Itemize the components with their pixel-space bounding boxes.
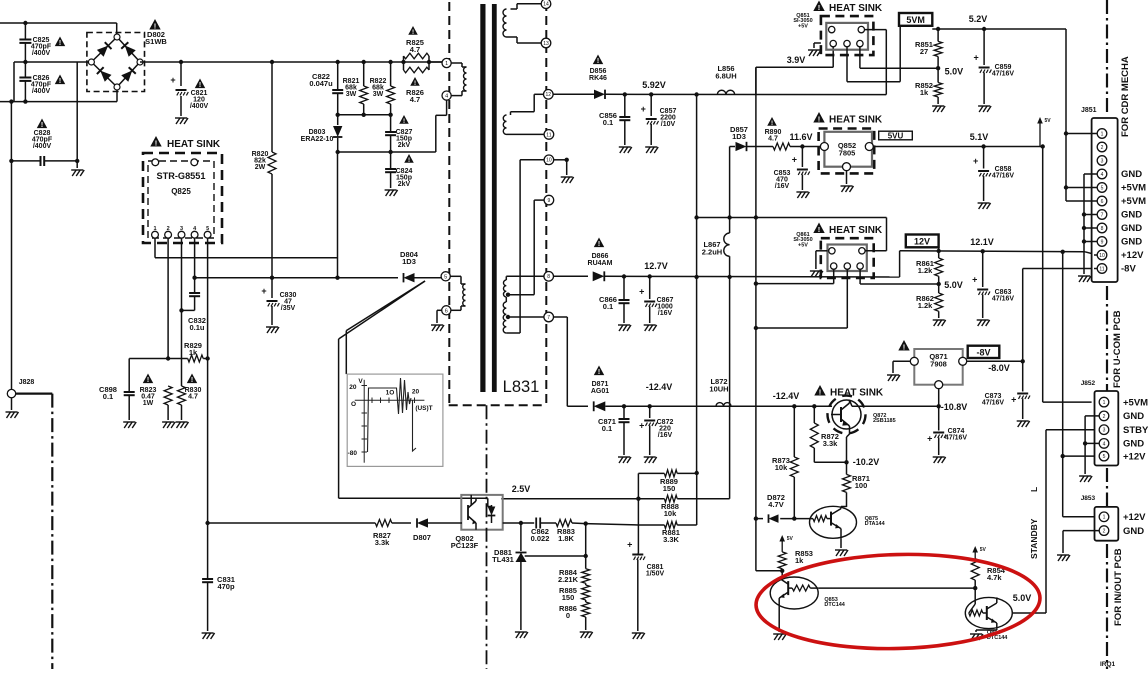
resistor R821 bbox=[343, 62, 368, 115]
svg-text:11: 11 bbox=[1099, 266, 1104, 272]
svg-text:!: ! bbox=[414, 80, 416, 87]
svg-text:2.21K: 2.21K bbox=[558, 575, 579, 584]
svg-text:12: 12 bbox=[546, 92, 552, 98]
svg-text:1: 1 bbox=[1103, 400, 1106, 406]
pin 14 bbox=[541, 0, 551, 9]
svg-text:7805: 7805 bbox=[839, 149, 856, 158]
node C872 bbox=[648, 404, 652, 408]
svg-text:GND: GND bbox=[1121, 169, 1142, 180]
label Q851 bbox=[793, 13, 812, 29]
svg-text:+5VM: +5VM bbox=[1123, 397, 1148, 408]
svg-text:RK46: RK46 bbox=[589, 75, 607, 82]
capacitor C872 bbox=[639, 406, 673, 463]
resistor R884 bbox=[558, 568, 590, 584]
svg-text:/400V: /400V bbox=[32, 50, 51, 57]
resistor R889 bbox=[638, 470, 696, 493]
wire STR pin1 link bbox=[155, 257, 338, 259]
svg-text:+12V: +12V bbox=[1123, 451, 1146, 462]
svg-text:-8.0V: -8.0V bbox=[988, 363, 1010, 373]
svg-text:1: 1 bbox=[445, 61, 448, 67]
svg-text:4.7k: 4.7k bbox=[987, 573, 1002, 582]
label Q872 bbox=[873, 413, 896, 424]
wire bottom fb line bbox=[205, 521, 375, 525]
wire Q854 emitter bbox=[970, 629, 997, 640]
label STANDBY bbox=[1029, 487, 1039, 559]
svg-text:STBY: STBY bbox=[1123, 425, 1148, 436]
transistor Q854 bbox=[965, 597, 1012, 628]
svg-text:AG01: AG01 bbox=[591, 388, 609, 395]
svg-text:!: ! bbox=[147, 377, 149, 384]
wire pin7 drop bbox=[554, 317, 589, 406]
svg-text:+5VM: +5VM bbox=[1121, 183, 1146, 194]
wire Q861 pin R bbox=[860, 269, 939, 284]
svg-text:!: ! bbox=[199, 82, 201, 89]
svg-text:0.1: 0.1 bbox=[603, 302, 613, 311]
svg-text:-10.2V: -10.2V bbox=[853, 457, 880, 467]
node C853 bbox=[800, 144, 804, 148]
svg-text:ERA22-10: ERA22-10 bbox=[301, 136, 334, 143]
wire feedback diag2 bbox=[346, 281, 425, 374]
wire J851 pin1 feed bbox=[1064, 131, 1097, 135]
svg-text:0.1: 0.1 bbox=[603, 118, 613, 127]
wire -10.8V bbox=[850, 400, 939, 406]
svg-text:1.8K: 1.8K bbox=[558, 534, 574, 543]
wire STR pin2 bbox=[167, 238, 169, 358]
capacitor C828 bbox=[9, 119, 79, 167]
svg-text:!: ! bbox=[818, 3, 821, 12]
svg-text:+: + bbox=[973, 156, 978, 166]
secondary winding S14-13 bbox=[503, 4, 541, 43]
capacitor C853 bbox=[774, 147, 810, 199]
svg-text:5: 5 bbox=[444, 274, 447, 280]
wire -8V to J851 bbox=[1023, 269, 1097, 362]
bus vertical right bbox=[755, 67, 757, 518]
svg-text:!: ! bbox=[59, 78, 61, 85]
wire B+ rail bbox=[140, 61, 442, 63]
svg-text:5V: 5V bbox=[1045, 118, 1052, 124]
svg-text:-12.4V: -12.4V bbox=[773, 391, 800, 401]
svg-text:1.2k: 1.2k bbox=[918, 266, 933, 275]
svg-text:100: 100 bbox=[855, 481, 868, 490]
svg-text:GND: GND bbox=[1123, 526, 1144, 537]
supply arrow 5V c bbox=[972, 546, 986, 559]
svg-text:5VU: 5VU bbox=[888, 132, 904, 141]
svg-text:47/16V: 47/16V bbox=[982, 400, 1005, 407]
wire 11.6V bbox=[790, 146, 820, 148]
border dash-dot left bbox=[51, 394, 53, 669]
secondary winding S8-7 bbox=[503, 276, 544, 333]
svg-text:5V: 5V bbox=[787, 536, 794, 542]
wire 12V feed J852 J853 bbox=[1061, 252, 1097, 517]
connector J853 box bbox=[1081, 495, 1119, 541]
svg-text:FOR CDR MECHA: FOR CDR MECHA bbox=[1120, 56, 1131, 137]
label Q802 bbox=[451, 534, 479, 550]
svg-text:10k: 10k bbox=[775, 463, 788, 472]
capacitor C866 bbox=[599, 277, 631, 332]
svg-text:2: 2 bbox=[1103, 414, 1106, 420]
inductor L872 bbox=[709, 377, 731, 406]
node R821 top bbox=[362, 60, 366, 64]
svg-text:3.3k: 3.3k bbox=[823, 439, 838, 448]
svg-text:20: 20 bbox=[412, 389, 420, 396]
svg-text:4: 4 bbox=[1101, 172, 1104, 178]
svg-text:GND: GND bbox=[1121, 210, 1142, 221]
pin 12 bbox=[544, 90, 554, 100]
heatsink Q872 arc bbox=[828, 396, 866, 434]
resistor R873 bbox=[772, 406, 798, 518]
svg-text:+5V: +5V bbox=[798, 23, 808, 29]
capacitor C874 bbox=[927, 406, 967, 463]
svg-text:47/16V: 47/16V bbox=[992, 173, 1015, 180]
label R825 bbox=[406, 26, 424, 54]
border dash-dot right top bbox=[1106, 0, 1108, 114]
svg-text:GND: GND bbox=[1123, 411, 1144, 422]
label -8.0V bbox=[988, 363, 1010, 373]
wire opto out bbox=[501, 498, 638, 500]
node row1 right bbox=[695, 471, 699, 475]
diode D807 bbox=[413, 518, 462, 542]
svg-text:GND: GND bbox=[1121, 223, 1142, 234]
svg-text:D807: D807 bbox=[413, 533, 431, 542]
svg-text:12.1V: 12.1V bbox=[970, 237, 994, 247]
svg-text:HEAT SINK: HEAT SINK bbox=[830, 388, 884, 399]
wire Q854 out standby bbox=[1013, 430, 1097, 613]
svg-text:+: + bbox=[170, 75, 175, 85]
wire feedback diag1 bbox=[339, 281, 425, 339]
shunt D881 TL431 bbox=[492, 523, 528, 638]
connector J828 bbox=[6, 379, 35, 418]
svg-text:FOR IN/OUT PCB: FOR IN/OUT PCB bbox=[1113, 548, 1124, 626]
label D871 bbox=[591, 366, 609, 396]
svg-text:0: 0 bbox=[566, 611, 570, 620]
svg-text:5: 5 bbox=[1101, 185, 1104, 191]
transformer core bbox=[480, 4, 496, 392]
wire J851 pin10 feed bbox=[1094, 254, 1097, 256]
wire pin6 gnd bbox=[431, 310, 444, 331]
svg-text:/400V: /400V bbox=[190, 103, 209, 110]
label FOR U-COM PCB bbox=[1112, 310, 1123, 388]
resistor R886 bbox=[559, 600, 593, 638]
node 5.0V q861 bbox=[937, 280, 963, 290]
diode D871 bbox=[594, 401, 766, 411]
svg-text:D871: D871 bbox=[592, 381, 609, 388]
svg-text:5VM: 5VM bbox=[906, 15, 925, 25]
svg-text:!: ! bbox=[598, 241, 600, 248]
svg-text:V: V bbox=[358, 378, 363, 385]
capacitor C826 bbox=[19, 62, 65, 102]
svg-text:4: 4 bbox=[445, 94, 448, 100]
resistor R872 bbox=[810, 406, 839, 462]
svg-text:/400V: /400V bbox=[33, 143, 52, 150]
svg-text:5.0V: 5.0V bbox=[944, 280, 963, 290]
svg-text:2SB1185: 2SB1185 bbox=[873, 418, 896, 424]
diode D866 bbox=[554, 271, 900, 281]
svg-text:!: ! bbox=[59, 40, 61, 47]
waveform inset graph bbox=[347, 374, 443, 466]
wire Q875 emitter gnd bbox=[835, 507, 848, 557]
wire row3 left bbox=[521, 522, 534, 524]
svg-text:/400V: /400V bbox=[32, 88, 51, 95]
svg-text:5V: 5V bbox=[980, 547, 987, 553]
svg-text:+5VM: +5VM bbox=[1121, 196, 1146, 207]
wire C828 right up bbox=[76, 62, 78, 161]
svg-text:470p: 470p bbox=[217, 582, 235, 591]
node 12V feed bbox=[1061, 250, 1065, 254]
border dash-dot right mid bbox=[1106, 286, 1108, 392]
svg-text:13: 13 bbox=[543, 41, 549, 47]
resistor R822 bbox=[370, 62, 395, 115]
wire AC left loop bbox=[14, 62, 91, 102]
svg-text:10: 10 bbox=[1099, 253, 1105, 259]
wire TL431 ref bbox=[525, 524, 588, 568]
svg-text:+: + bbox=[973, 53, 978, 63]
node R872 top bbox=[812, 404, 816, 408]
resistor R825 R826 pair bbox=[401, 53, 442, 73]
box 5VM bbox=[899, 13, 932, 26]
wire J851 pin11 feed bbox=[1094, 268, 1097, 270]
svg-text:HEAT SINK: HEAT SINK bbox=[167, 139, 221, 150]
svg-text:3: 3 bbox=[180, 226, 183, 232]
ground Q861 bbox=[810, 251, 828, 277]
wire Q854 base bbox=[969, 588, 975, 613]
svg-text:8: 8 bbox=[547, 274, 550, 280]
resistor R883 bbox=[556, 520, 586, 544]
transistor Q853 bbox=[770, 577, 818, 609]
svg-text:+: + bbox=[927, 434, 932, 444]
capacitor C881 bbox=[627, 540, 664, 640]
label -10.8V bbox=[941, 402, 968, 412]
wire 5.1V rail bbox=[873, 146, 1042, 148]
supply arrow 5V a bbox=[1037, 117, 1051, 147]
wire Q851 top right bbox=[865, 30, 887, 95]
diode D856 bbox=[553, 90, 886, 99]
wire J851 gnd chain bbox=[1078, 174, 1097, 282]
label 11.6V bbox=[789, 132, 812, 142]
svg-text:-12.4V: -12.4V bbox=[646, 382, 673, 392]
label Q875 bbox=[865, 516, 886, 527]
zener D872 bbox=[754, 493, 785, 523]
label HEAT SINK Q852 bbox=[813, 112, 883, 126]
node C856 bbox=[623, 92, 627, 96]
svg-text:-8V: -8V bbox=[1121, 264, 1136, 275]
node R820 bbox=[270, 60, 274, 64]
svg-text:2kV: 2kV bbox=[398, 142, 411, 149]
svg-text:2: 2 bbox=[167, 226, 170, 232]
svg-text:0.047u: 0.047u bbox=[309, 79, 333, 88]
resistor R885 bbox=[559, 583, 590, 602]
svg-text:1k: 1k bbox=[189, 348, 198, 357]
svg-text:(US)T: (US)T bbox=[415, 405, 432, 412]
heatsink STR outline bbox=[143, 153, 222, 243]
svg-text:2kV: 2kV bbox=[398, 181, 411, 188]
label HEAT SINK Q861 bbox=[813, 223, 883, 237]
label STR-G8551 bbox=[156, 171, 205, 196]
wire Q861 in bbox=[865, 250, 886, 252]
label HEAT SINK Q851 bbox=[813, 1, 883, 15]
optocoupler Q802 internals bbox=[468, 495, 495, 530]
svg-text:4.7: 4.7 bbox=[410, 95, 420, 104]
svg-text:0.022: 0.022 bbox=[531, 534, 550, 543]
label Q861 bbox=[793, 232, 812, 248]
svg-text:2: 2 bbox=[1103, 529, 1106, 535]
svg-text:/16V: /16V bbox=[658, 432, 673, 439]
label D856 bbox=[589, 55, 607, 83]
wire Q875 base bbox=[780, 516, 813, 520]
svg-text:-80: -80 bbox=[348, 450, 358, 457]
svg-text:J853: J853 bbox=[1081, 495, 1096, 502]
connector J853 labels bbox=[1123, 512, 1146, 537]
IC Q852 pins bbox=[820, 143, 873, 171]
svg-text:+: + bbox=[1011, 395, 1016, 405]
svg-text:47/16V: 47/16V bbox=[992, 71, 1015, 78]
wire STR pin5 bus bbox=[205, 238, 209, 523]
resistor R861 bbox=[916, 251, 943, 284]
svg-text:1W: 1W bbox=[143, 400, 154, 407]
node L856 bbox=[694, 92, 698, 96]
wire D857 drop bbox=[729, 147, 731, 234]
resistor R820 bbox=[252, 62, 276, 278]
wire -12.4V cont bbox=[731, 405, 832, 407]
svg-text:20: 20 bbox=[349, 384, 357, 391]
svg-text:!: ! bbox=[154, 21, 157, 30]
svg-text:!: ! bbox=[412, 29, 414, 36]
node C830 bbox=[270, 276, 274, 280]
svg-text:HEAT SINK: HEAT SINK bbox=[829, 225, 883, 236]
wire drain rail bbox=[195, 277, 398, 279]
resistor R823 bbox=[140, 374, 175, 429]
wire pin7 tap bbox=[506, 315, 544, 319]
wire J852 gnd bbox=[1079, 416, 1099, 482]
label Q853 bbox=[824, 597, 845, 608]
svg-text:+: + bbox=[261, 286, 266, 296]
svg-text:3.9V: 3.9V bbox=[787, 55, 806, 65]
svg-text:5: 5 bbox=[206, 226, 209, 232]
svg-text:10UH: 10UH bbox=[709, 385, 728, 394]
svg-text:D866: D866 bbox=[592, 253, 609, 260]
label Q871 bbox=[898, 340, 947, 369]
capacitor C871 bbox=[598, 406, 631, 463]
svg-text:2: 2 bbox=[1101, 145, 1104, 151]
label HEAT SINK STR bbox=[150, 136, 221, 150]
svg-text:HEAT SINK: HEAT SINK bbox=[829, 3, 883, 14]
capacitor C831 bbox=[202, 523, 235, 639]
resistor R862 bbox=[916, 284, 946, 326]
svg-text:S1WB: S1WB bbox=[145, 37, 167, 46]
transformer boundary dashed right bbox=[545, 2, 547, 405]
transistor Q875 bbox=[810, 506, 857, 538]
svg-text:HEAT SINK: HEAT SINK bbox=[829, 115, 883, 126]
label 5.92V bbox=[642, 80, 666, 90]
wire STR pin3 bbox=[181, 238, 183, 386]
capacitor C822 bbox=[309, 62, 343, 115]
pin 5 bbox=[441, 272, 450, 281]
label 2.5V bbox=[512, 484, 531, 494]
svg-text:1: 1 bbox=[1101, 131, 1104, 137]
svg-text:1k: 1k bbox=[920, 88, 929, 97]
label 12.1V bbox=[970, 237, 994, 247]
label 3.9V bbox=[787, 55, 806, 65]
resistor R830 bbox=[176, 374, 202, 429]
svg-text:2.5V: 2.5V bbox=[512, 484, 531, 494]
svg-text:!: ! bbox=[903, 342, 906, 351]
resistor R851 bbox=[915, 29, 942, 68]
svg-text:DTC144: DTC144 bbox=[824, 602, 845, 608]
heatsink Q852 outline bbox=[819, 129, 875, 174]
resistor R854 bbox=[971, 559, 1006, 589]
pin 9 bbox=[544, 195, 554, 205]
svg-text:+5V: +5V bbox=[798, 242, 808, 248]
pin 4 bbox=[442, 91, 451, 100]
node C859 bbox=[982, 27, 986, 31]
transformer boundary dashed left bbox=[448, 2, 450, 405]
ground Q871 left bbox=[887, 361, 910, 381]
svg-text:J851: J851 bbox=[1081, 107, 1097, 114]
label L831 bbox=[503, 378, 540, 396]
svg-text:J828: J828 bbox=[19, 379, 35, 386]
node R873 top bbox=[792, 404, 796, 408]
node C863 bbox=[981, 249, 985, 253]
label D802 bbox=[145, 19, 167, 46]
svg-text:47/16V: 47/16V bbox=[945, 435, 968, 442]
wire 2.5V line bbox=[339, 498, 492, 506]
capacitor C857 bbox=[641, 94, 677, 153]
label FOR CDR MECHA bbox=[1120, 56, 1131, 137]
svg-text:4.7: 4.7 bbox=[768, 135, 778, 142]
svg-text:3: 3 bbox=[1101, 158, 1104, 164]
highlight red ellipse bbox=[755, 551, 1041, 652]
svg-text:6.8UH: 6.8UH bbox=[715, 72, 736, 81]
pin 10 bbox=[544, 155, 554, 165]
capacitor C830 bbox=[261, 278, 296, 333]
svg-text:STR-G8551: STR-G8551 bbox=[156, 171, 205, 181]
wire opto to node bbox=[503, 521, 523, 525]
svg-text:4.7: 4.7 bbox=[188, 393, 198, 400]
wire Q851 mid pin bbox=[847, 26, 900, 82]
secondary winding S12-11 bbox=[503, 94, 544, 134]
regulator Q851 box bbox=[826, 23, 868, 50]
svg-text:3W: 3W bbox=[373, 91, 384, 98]
box -8V bbox=[968, 346, 1000, 358]
svg-text:!: ! bbox=[818, 114, 821, 123]
svg-text:8: 8 bbox=[1101, 226, 1104, 232]
ground Q852 pin bbox=[841, 171, 854, 192]
svg-text:47/16V: 47/16V bbox=[992, 296, 1015, 303]
svg-text:7: 7 bbox=[547, 315, 550, 321]
node C821 bbox=[179, 60, 183, 64]
svg-text:7: 7 bbox=[1101, 212, 1104, 218]
svg-text:7908: 7908 bbox=[930, 360, 947, 369]
label HEAT SINK Q872 bbox=[814, 385, 884, 399]
wire right bus r1r3 bbox=[696, 473, 698, 525]
wire J853 gnd bbox=[1057, 531, 1099, 561]
wire STR pin1 bbox=[154, 238, 156, 258]
capacitor C821 bbox=[170, 62, 208, 124]
pin 6 bbox=[442, 306, 451, 315]
regulator Q852 box bbox=[824, 132, 872, 167]
connector J852 pins bbox=[1099, 397, 1109, 461]
wire Q853 out bbox=[818, 587, 975, 589]
connector J853 pins bbox=[1099, 512, 1109, 535]
wire Q872 collector bbox=[814, 429, 849, 464]
IC STR-G8551 box bbox=[148, 161, 214, 238]
svg-text:5.0V: 5.0V bbox=[1013, 593, 1032, 603]
svg-text:4.7: 4.7 bbox=[410, 45, 420, 54]
svg-text:2W: 2W bbox=[255, 164, 266, 171]
capacitor C867 bbox=[639, 277, 673, 332]
wire Q851 right pin bbox=[860, 47, 938, 68]
label FOR IN/OUT PCB bbox=[1113, 548, 1124, 626]
node R861 bbox=[937, 249, 941, 253]
